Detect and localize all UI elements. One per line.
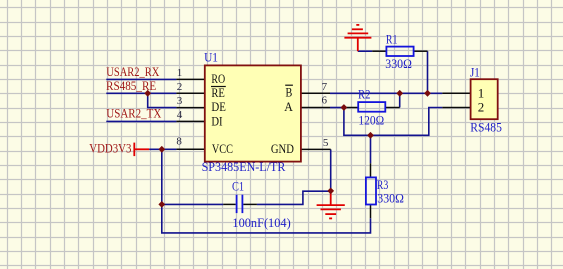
svg-text:2: 2: [478, 100, 485, 115]
svg-text:330Ω: 330Ω: [385, 56, 412, 71]
svg-text:J1: J1: [470, 64, 480, 79]
svg-text:6: 6: [321, 95, 327, 107]
svg-text:GND: GND: [271, 141, 294, 156]
svg-text:VCC: VCC: [212, 141, 233, 156]
svg-text:B: B: [286, 85, 293, 100]
svg-text:R2: R2: [358, 87, 371, 102]
svg-text:330Ω: 330Ω: [377, 190, 404, 205]
svg-text:USAR2_TX: USAR2_TX: [106, 106, 162, 121]
svg-text:8: 8: [176, 135, 182, 147]
svg-text:RS485_RE: RS485_RE: [106, 78, 156, 93]
svg-text:USAR2_RX: USAR2_RX: [106, 64, 160, 79]
svg-text:R1: R1: [386, 31, 398, 46]
svg-text:4: 4: [177, 109, 183, 121]
svg-text:VDD3V3: VDD3V3: [89, 141, 131, 156]
svg-text:RS485: RS485: [470, 119, 502, 134]
svg-text:SP3485EN-L/TR: SP3485EN-L/TR: [202, 159, 286, 174]
svg-text:1: 1: [177, 67, 183, 79]
svg-text:7: 7: [322, 81, 328, 93]
svg-text:120Ω: 120Ω: [358, 113, 384, 128]
svg-text:C1: C1: [232, 178, 244, 193]
svg-text:A: A: [284, 99, 293, 114]
svg-text:2: 2: [177, 81, 183, 93]
svg-text:100nF(104): 100nF(104): [232, 215, 290, 230]
svg-text:U1: U1: [204, 50, 218, 65]
svg-text:3: 3: [177, 95, 183, 107]
svg-text:5: 5: [323, 137, 329, 149]
svg-text:DE: DE: [211, 99, 226, 114]
svg-text:RO: RO: [211, 71, 225, 86]
svg-text:DI: DI: [211, 113, 222, 128]
svg-text:1: 1: [478, 85, 485, 100]
